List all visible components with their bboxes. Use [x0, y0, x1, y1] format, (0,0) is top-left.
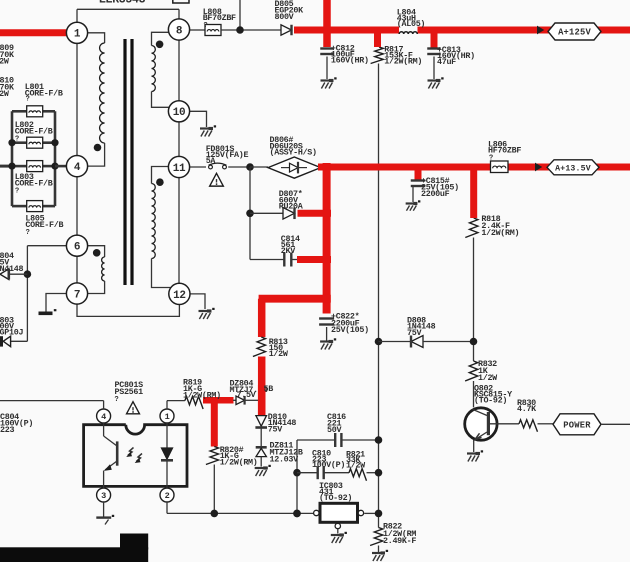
- svg-text:4.7K: 4.7K: [517, 404, 537, 414]
- svg-text:?: ?: [204, 22, 208, 30]
- svg-text:?: ?: [15, 188, 19, 196]
- svg-text:2: 2: [165, 491, 170, 501]
- svg-text:?: ?: [15, 136, 19, 144]
- svg-text:4: 4: [101, 412, 106, 422]
- svg-text:(ASSY-H/S): (ASSY-H/S): [270, 148, 317, 158]
- svg-text:1/2W: 1/2W: [478, 373, 498, 383]
- svg-text:?: ?: [115, 396, 119, 404]
- svg-text:2200uF: 2200uF: [421, 189, 450, 199]
- svg-text:75V: 75V: [407, 328, 422, 338]
- svg-text:1/2W: 1/2W: [346, 461, 366, 471]
- svg-text:4: 4: [74, 162, 81, 174]
- svg-text:25V(105): 25V(105): [331, 325, 369, 335]
- svg-text:6: 6: [74, 242, 80, 254]
- svg-text:?: ?: [26, 229, 30, 237]
- svg-text:1/2W: 1/2W: [269, 349, 289, 359]
- svg-text:CORE-F/B: CORE-F/B: [15, 126, 53, 136]
- svg-text:BF70ZBF: BF70ZBF: [203, 13, 236, 23]
- svg-text:(TO-92): (TO-92): [319, 493, 352, 503]
- svg-text:3: 3: [101, 491, 106, 501]
- svg-text:10: 10: [173, 107, 186, 119]
- svg-text:A+125V: A+125V: [558, 28, 591, 38]
- svg-text:EGP10J: EGP10J: [0, 327, 23, 337]
- svg-text:75V: 75V: [268, 424, 283, 434]
- svg-text:223: 223: [0, 425, 14, 435]
- svg-text:?: ?: [489, 155, 493, 163]
- svg-text:1N4148: 1N4148: [0, 264, 23, 274]
- svg-text:8: 8: [176, 25, 183, 37]
- svg-text:(TO-92): (TO-92): [474, 396, 507, 406]
- svg-text:12: 12: [173, 290, 186, 302]
- svg-text:50V: 50V: [327, 425, 342, 435]
- svg-text:A+13.5V: A+13.5V: [555, 164, 591, 173]
- svg-text:CORE-F/B: CORE-F/B: [25, 220, 63, 230]
- svg-text:HF70ZBF: HF70ZBF: [488, 146, 521, 156]
- svg-text:1/2W(RM): 1/2W(RM): [183, 390, 221, 400]
- svg-text:CORE-F/B: CORE-F/B: [25, 88, 63, 98]
- svg-text:CORE-F/B: CORE-F/B: [15, 178, 53, 188]
- svg-text:1/2W: 1/2W: [0, 57, 10, 67]
- svg-text:1/2W(RM): 1/2W(RM): [384, 56, 422, 66]
- svg-text:7: 7: [74, 289, 80, 301]
- svg-text:47uF: 47uF: [437, 57, 456, 67]
- svg-text:100V(P): 100V(P): [312, 460, 345, 470]
- svg-text:2KV: 2KV: [281, 246, 296, 256]
- svg-text:5A: 5A: [206, 156, 217, 166]
- svg-text:1: 1: [165, 412, 170, 422]
- svg-text:5B: 5B: [264, 384, 274, 394]
- svg-text:1/2W(RM): 1/2W(RM): [481, 228, 519, 238]
- svg-text:(AL05): (AL05): [397, 19, 425, 29]
- svg-text:?: ?: [26, 96, 30, 104]
- svg-text:800V: 800V: [275, 12, 295, 22]
- svg-text:2.49K-F: 2.49K-F: [383, 536, 416, 546]
- svg-text:POWER: POWER: [563, 420, 591, 430]
- svg-text:PS2561: PS2561: [115, 387, 144, 397]
- svg-text:EER3543: EER3543: [99, 0, 146, 7]
- svg-text:160V(HR): 160V(HR): [331, 56, 369, 66]
- svg-text:12.03V: 12.03V: [270, 455, 300, 465]
- svg-text:1/2W: 1/2W: [0, 89, 10, 99]
- svg-text:11: 11: [173, 163, 186, 175]
- svg-text:1: 1: [74, 29, 81, 41]
- svg-text:7.5V: 7.5V: [237, 390, 257, 400]
- svg-text:1/2W(RM): 1/2W(RM): [220, 457, 258, 467]
